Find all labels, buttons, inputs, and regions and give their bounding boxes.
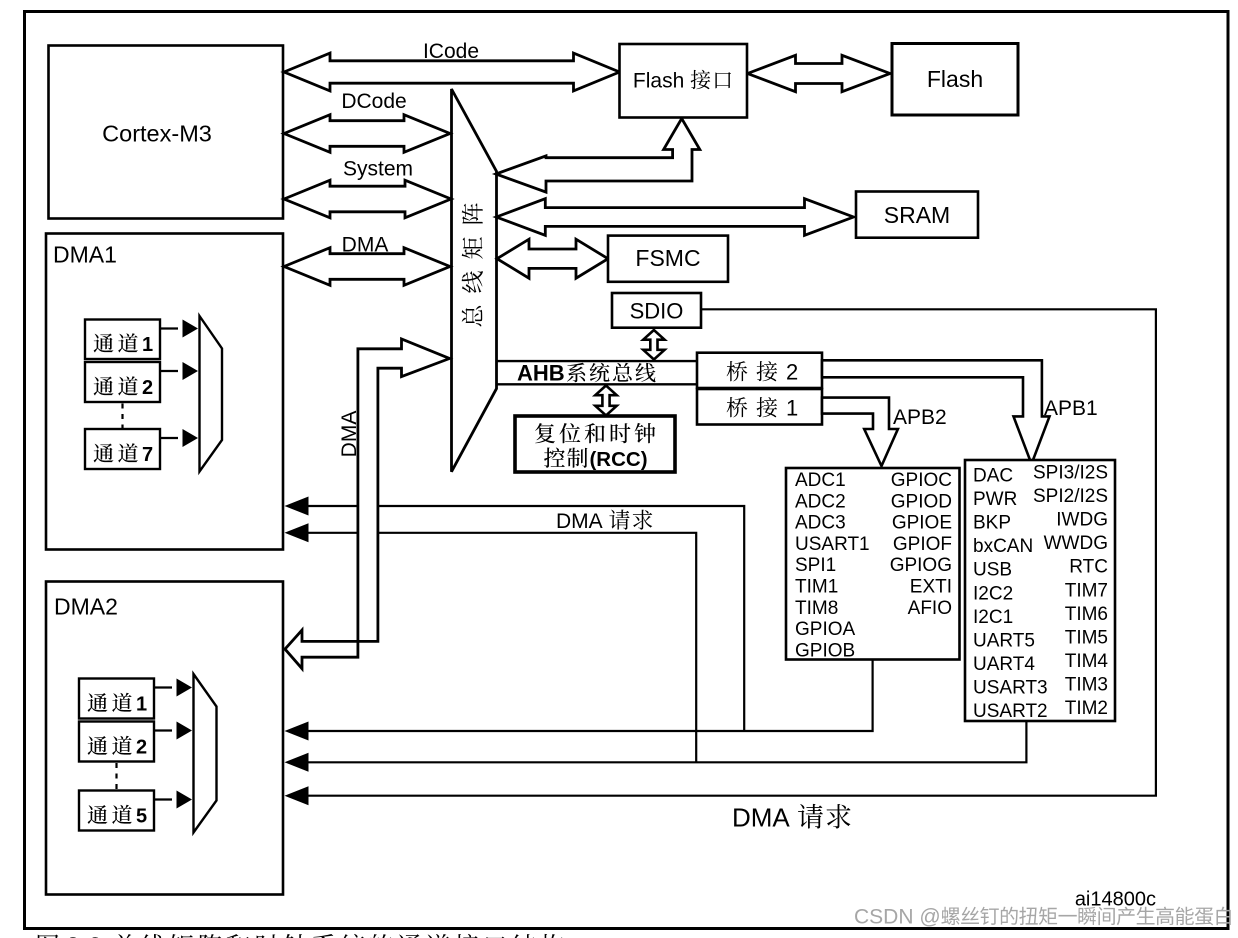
DMA1 channel 1 box xyxy=(85,320,160,360)
svg-text:System: System xyxy=(343,158,413,181)
APB1 bent arrow from bridge2 xyxy=(822,360,1050,464)
svg-text:SPI1: SPI1 xyxy=(795,555,836,576)
svg-text:ADC2: ADC2 xyxy=(795,491,846,512)
System bus arrow xyxy=(284,180,451,218)
svg-text:CSDN @: CSDN @ xyxy=(854,906,941,929)
svg-text:ADC1: ADC1 xyxy=(795,470,846,491)
DMA2 mux trapezoid xyxy=(194,674,217,833)
svg-text:ADC3: ADC3 xyxy=(795,513,846,534)
svg-text:DMA: DMA xyxy=(732,803,790,833)
svg-text:(RCC): (RCC) xyxy=(589,448,647,471)
DMA2 channel 5 arrow xyxy=(154,798,172,800)
svg-text:SRAM: SRAM xyxy=(884,202,950,228)
svg-text:TIM7: TIM7 xyxy=(1065,580,1108,601)
svg-text:TIM6: TIM6 xyxy=(1065,604,1108,625)
svg-text:SDIO: SDIO xyxy=(630,299,684,324)
svg-text:UART4: UART4 xyxy=(973,654,1035,675)
svg-text:5: 5 xyxy=(136,806,147,828)
wire: branch up from lower request line to DMA1 second request xyxy=(308,533,696,763)
svg-text:DMA1: DMA1 xyxy=(53,242,117,268)
block bridge2 桥接2 xyxy=(697,353,822,388)
DCode bus arrow xyxy=(284,115,450,153)
svg-text:TIM5: TIM5 xyxy=(1065,627,1108,648)
DMA1 channel 7 box xyxy=(85,429,160,469)
DMA1 channel 1 arrow xyxy=(160,327,178,329)
svg-text:USB: USB xyxy=(973,560,1012,581)
svg-text:TIM4: TIM4 xyxy=(1065,651,1109,672)
svg-text:7: 7 xyxy=(142,444,153,466)
DMA1 mux trapezoid xyxy=(200,316,223,472)
svg-text:SPI3/I2S: SPI3/I2S xyxy=(1033,463,1108,484)
svg-text:PWR: PWR xyxy=(973,489,1017,510)
svg-text:2: 2 xyxy=(786,360,798,385)
bus matrix parallelogram xyxy=(452,89,497,472)
svg-text:DMA: DMA xyxy=(556,510,603,533)
svg-text:I2C2: I2C2 xyxy=(973,583,1013,604)
block bridge1 桥接1 xyxy=(697,389,822,425)
svg-text:GPIOF: GPIOF xyxy=(893,534,952,555)
svg-text:IWDG: IWDG xyxy=(1056,510,1108,531)
svg-text:FSMC: FSMC xyxy=(635,245,700,271)
SDIO vertical arrow xyxy=(643,330,664,360)
block FSMC xyxy=(608,236,728,282)
svg-text:GPIOB: GPIOB xyxy=(795,640,855,661)
block Flash interface xyxy=(620,44,748,118)
DMA1 dashed channel ellipsis xyxy=(121,404,123,429)
wire: APB2 down to DMA2 middle request line xyxy=(308,659,873,731)
APB2 bent arrow from bridge1 xyxy=(822,398,898,466)
svg-text:2: 2 xyxy=(136,737,147,759)
svg-text:TIM2: TIM2 xyxy=(1065,698,1108,719)
svg-text:TIM8: TIM8 xyxy=(795,598,838,619)
rotated DMA label on DMA2 bus xyxy=(338,411,361,458)
DMA2 channel 1 box xyxy=(79,679,154,719)
svg-text:bxCAN: bxCAN xyxy=(973,536,1033,557)
DMA2 channel 2 arrow xyxy=(154,729,172,731)
svg-text:TIM1: TIM1 xyxy=(795,577,838,598)
ICode bus arrow xyxy=(284,53,620,91)
svg-text:APB1: APB1 xyxy=(1044,397,1098,420)
svg-text:DMA2: DMA2 xyxy=(54,594,118,620)
RCC vertical arrow xyxy=(595,386,616,416)
DMA2 channel 2 box xyxy=(79,722,154,762)
FLITF bent arrow (matrix to Flash interface) xyxy=(496,119,700,193)
block Flash xyxy=(892,44,1018,116)
DMA2 channel 1 arrow xyxy=(154,686,172,688)
APB1 peripherals box xyxy=(965,460,1115,721)
svg-text:DCode: DCode xyxy=(341,90,406,113)
svg-text:3-2: 3-2 xyxy=(66,933,102,938)
block RCC 复位和时钟控制 xyxy=(515,416,675,472)
svg-text:1: 1 xyxy=(786,396,798,421)
DMA1 channel 2 box xyxy=(85,362,160,402)
block DMA1 xyxy=(46,234,283,550)
svg-text:DMA: DMA xyxy=(342,234,389,257)
svg-text:USART1: USART1 xyxy=(795,534,870,555)
AHB system bus band xyxy=(497,360,698,362)
DMA1 channel 7 arrow xyxy=(160,437,178,439)
FSMC bus arrow xyxy=(497,239,608,278)
block SRAM xyxy=(856,192,978,238)
wire: APB1 down to DMA2 lower request line xyxy=(308,720,1026,762)
svg-text:Flash: Flash xyxy=(633,70,684,93)
svg-text:RTC: RTC xyxy=(1069,557,1108,578)
bottom caption (clipped) xyxy=(38,934,59,938)
svg-text:GPIOD: GPIOD xyxy=(891,491,952,512)
svg-text:UART5: UART5 xyxy=(973,630,1035,651)
APB2 peripherals box xyxy=(786,468,960,660)
wire: SDIO to DMA2 bottom DMA request xyxy=(308,309,1156,795)
svg-text:GPIOA: GPIOA xyxy=(795,619,856,640)
svg-text:AFIO: AFIO xyxy=(908,598,952,619)
DMA1 channel 2 arrow xyxy=(160,370,178,372)
svg-text:TIM3: TIM3 xyxy=(1065,674,1108,695)
wire: branch up from request line to DMA1 upper request xyxy=(308,506,744,731)
svg-text:BKP: BKP xyxy=(973,513,1011,534)
block Cortex-M3 xyxy=(49,46,284,219)
bus matrix vertical label 总线矩阵 xyxy=(462,203,483,326)
svg-text:DAC: DAC xyxy=(973,466,1013,487)
svg-text:ai14800c: ai14800c xyxy=(1075,889,1156,911)
svg-text:DMA: DMA xyxy=(338,411,361,458)
svg-text:Cortex-M3: Cortex-M3 xyxy=(102,121,212,147)
svg-text:I2C1: I2C1 xyxy=(973,607,1013,628)
DMA2 channel 5 box xyxy=(79,791,154,831)
SRAM bus arrow xyxy=(496,199,853,236)
svg-text:1: 1 xyxy=(142,334,153,356)
svg-text:Flash: Flash xyxy=(927,66,983,92)
svg-text:GPIOE: GPIOE xyxy=(892,513,952,534)
svg-text:ICode: ICode xyxy=(423,40,479,63)
svg-text:WWDG: WWDG xyxy=(1044,533,1108,554)
svg-text:APB2: APB2 xyxy=(893,406,947,429)
svg-text:AHB: AHB xyxy=(517,361,565,386)
svg-text:USART3: USART3 xyxy=(973,677,1048,698)
svg-text:SPI2/I2S: SPI2/I2S xyxy=(1033,486,1108,507)
svg-text:EXTI: EXTI xyxy=(910,577,952,598)
DMA2 bent bus arrow (matrix to DMA2) xyxy=(285,339,450,669)
svg-text:2: 2 xyxy=(142,377,153,399)
svg-text:GPIOC: GPIOC xyxy=(891,470,952,491)
Flash interface to Flash arrow xyxy=(748,55,891,91)
svg-text:1: 1 xyxy=(136,694,147,716)
DMA2 dashed channel ellipsis xyxy=(115,763,117,789)
block SDIO xyxy=(612,293,701,328)
DMA bus arrow (DMA1 to matrix) xyxy=(284,248,450,286)
block DMA2 xyxy=(46,582,283,895)
svg-text:USART2: USART2 xyxy=(973,701,1048,722)
svg-text:GPIOG: GPIOG xyxy=(890,555,952,576)
